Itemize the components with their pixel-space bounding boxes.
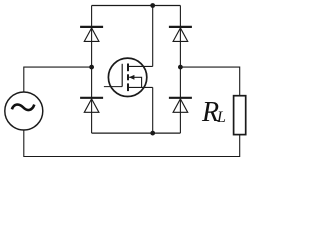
Q1 bulk arrowhead <box>129 75 135 80</box>
junction node source on bottom bridge rail <box>150 131 155 136</box>
wire source stub to bottom bridge rail <box>152 87 154 133</box>
Q1 drain lead <box>128 65 153 67</box>
diode D3 (bottom-left) <box>80 98 103 113</box>
resistor RL <box>234 96 246 135</box>
wire right bridge column <box>179 6 181 134</box>
wire top rail (D+ net) <box>92 5 181 7</box>
wire AC source top lead to left bridge node <box>24 67 92 92</box>
wire left bridge column <box>91 6 93 134</box>
Q1 gate bar <box>121 64 123 87</box>
Q1 body circle <box>108 58 146 96</box>
label RL value <box>201 97 226 128</box>
Q1 channel body segment <box>127 74 129 80</box>
diode D4 (bottom-right) <box>169 98 192 113</box>
wire AC source bottom lead / bottom rail to RL bottom <box>24 130 240 156</box>
wire bottom bridge rail (D- net) <box>92 132 181 134</box>
diode D1 (top-left) <box>80 27 103 42</box>
Q1 gate lead <box>104 86 122 88</box>
voltage source V1 (AC) <box>5 92 43 130</box>
transistor Q1 (N-channel MOSFET) <box>104 58 153 96</box>
wire drain stub from top rail <box>152 6 154 67</box>
diode D2 (top-right) <box>169 27 192 42</box>
junction node right AC output <box>178 65 183 70</box>
Q1 source lead <box>128 86 153 88</box>
Q1 bulk line <box>129 77 141 87</box>
wire right bridge node to load RL top <box>180 67 239 96</box>
Q1 channel source segment <box>127 83 129 91</box>
junction node left AC input <box>89 65 94 70</box>
junction node drain on top rail <box>150 3 155 8</box>
svg-text:L: L <box>216 109 226 126</box>
Q1 channel drain segment <box>127 64 129 72</box>
